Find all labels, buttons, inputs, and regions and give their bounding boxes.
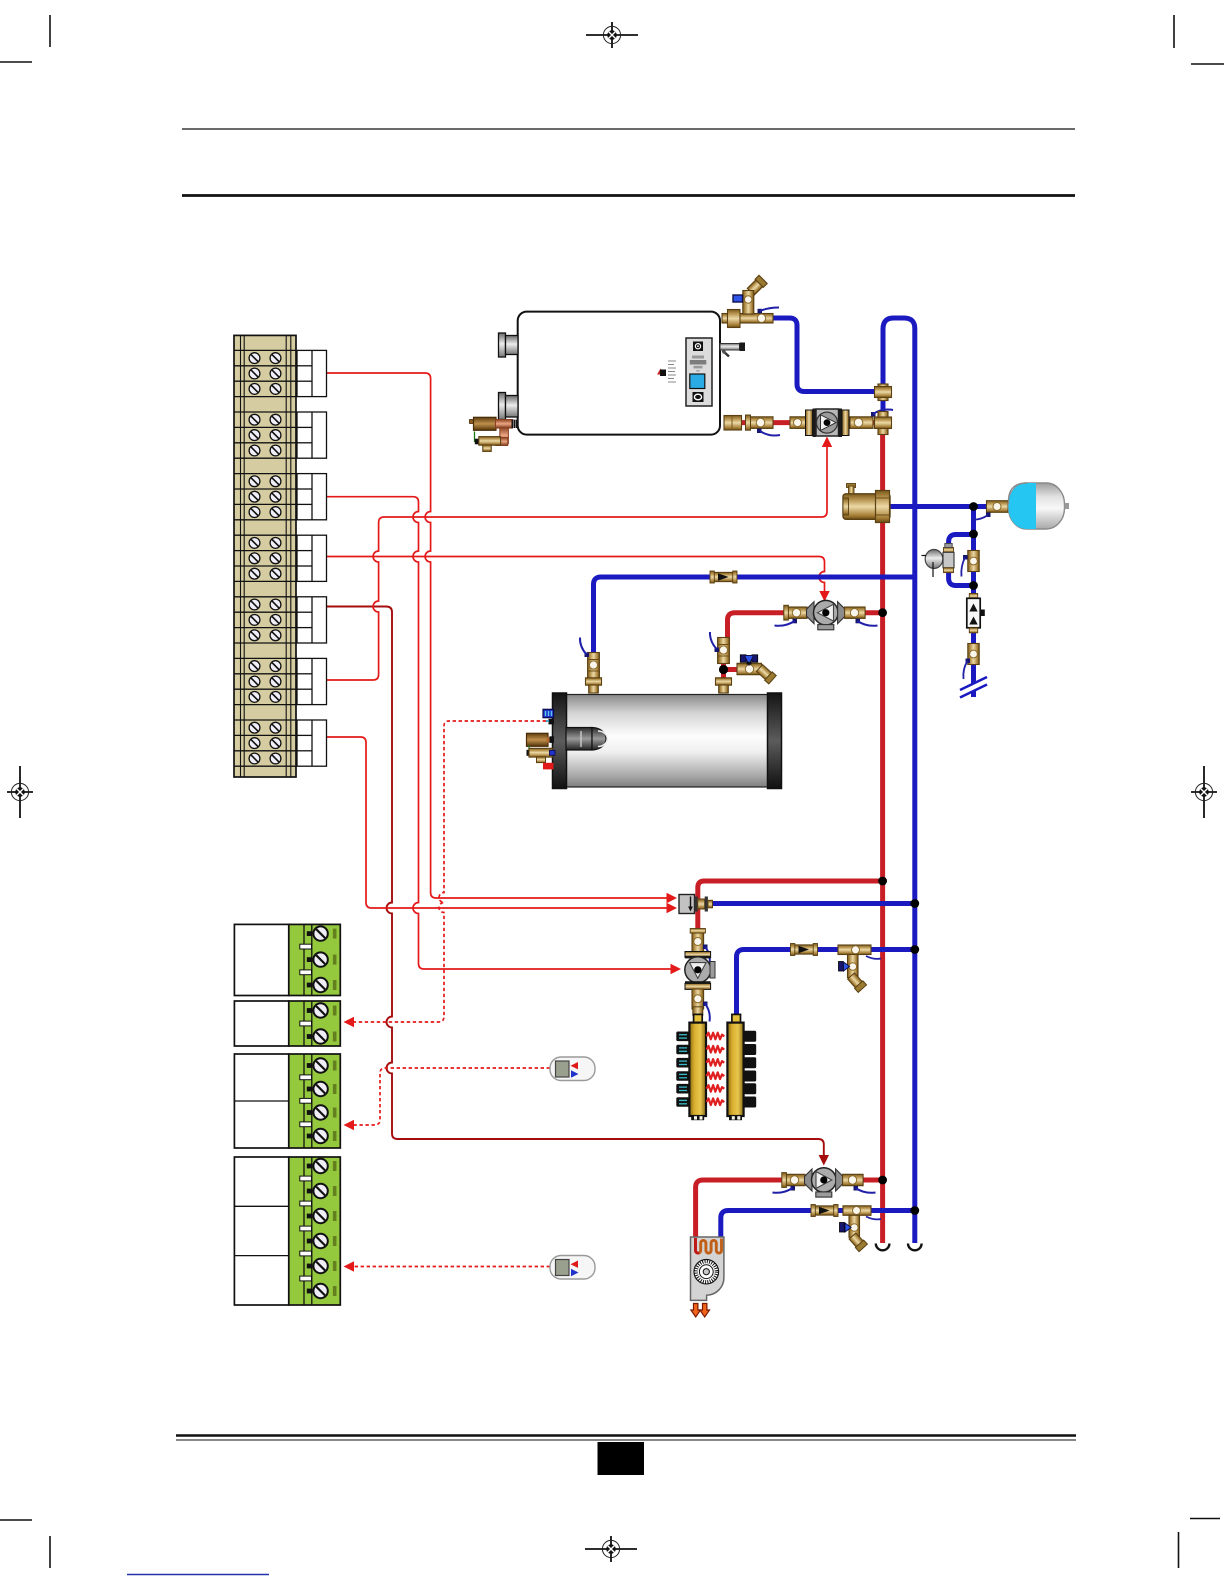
tank boiler drain faucet: [737, 655, 776, 684]
junction dot DHW pump discharge: [878, 608, 887, 617]
drain valve assembly on fan coil return: [840, 1206, 882, 1252]
relay box 2: [297, 412, 327, 458]
blue pipe fill left branch with PRV: [949, 535, 974, 586]
wire box4 to DHW pump: [327, 557, 825, 592]
junction dot fan coil return at return main: [910, 1206, 919, 1215]
relay box 5: [297, 597, 327, 643]
backflow preventer: [967, 594, 985, 633]
strip screws group7: [249, 722, 281, 733]
supply manifold (left): [689, 1014, 706, 1120]
wire box5 to fan coil pump: [327, 607, 824, 1156]
blue pipe fan coil return: [721, 1211, 915, 1240]
tee boiler return at main: [878, 384, 888, 401]
boiler: [499, 312, 746, 435]
arrow into green block3: [344, 1120, 355, 1130]
boiler control panel: [686, 338, 712, 406]
junction dot fill branch bottom: [969, 581, 978, 590]
arrow into mixing valve lower: [667, 903, 678, 913]
junction dot fan coil pump discharge: [878, 1176, 887, 1185]
supply manifold loop connectors: [676, 1032, 689, 1107]
strip screws group3: [249, 476, 281, 487]
tank aquastat fitting: [549, 719, 555, 725]
tank element (electric): [527, 733, 555, 746]
blue pipe to expansion tank: [889, 504, 1010, 509]
pump flange right: [839, 409, 843, 438]
registration mark left center: [7, 766, 33, 818]
dashed wire thermostat1 to control block 3: [354, 1068, 550, 1125]
red pipe supply main riser: [880, 424, 885, 1243]
relay box 3: [297, 474, 327, 520]
junction dot mixing valve outlet at return main: [910, 899, 919, 908]
relay box 4: [297, 535, 327, 581]
fan coil pump P3: [773, 1168, 876, 1197]
red pipe DHW pump suction from tank: [728, 613, 790, 645]
footer rule thin: [176, 1439, 1076, 1441]
registration mark right center: [1191, 766, 1217, 818]
fan coil blower wheel: [694, 1259, 719, 1284]
pump flange left: [806, 410, 813, 436]
control block 1 (green): [234, 924, 340, 995]
header rule thick: [182, 194, 1075, 197]
relay box 7: [297, 720, 327, 766]
ball valve on boiler outlet: [757, 314, 765, 322]
header rule thin: [182, 128, 1075, 130]
arrow into mixing valve upper: [667, 893, 678, 903]
return manifold (right): [727, 1014, 743, 1120]
tank hot connector (red): [543, 763, 554, 770]
strip screws group6: [249, 661, 281, 672]
relief valve body: [743, 291, 754, 315]
thermostat 1: [550, 1057, 595, 1081]
registration mark bottom center: [585, 1536, 637, 1562]
relief discharge elbow 45: [747, 275, 768, 296]
boiler gas stub: [720, 343, 745, 357]
check valve on tank cold feed: [710, 571, 737, 583]
crop mark bottom-left: [0, 1520, 50, 1568]
red pipe boiler supply to tee: [730, 420, 877, 425]
blue pipe fill lower drop: [971, 586, 976, 698]
wire box6 to boiler pump: [327, 447, 828, 680]
relay box 6: [297, 658, 327, 704]
boiler outlet piping with relief valve: [722, 275, 779, 327]
relay box 1: [297, 350, 327, 396]
arrow down into fan coil pump: [819, 1155, 829, 1166]
purge valve assembly on manifold return: [838, 945, 881, 992]
air separator: [843, 484, 890, 523]
tank hot outlet ball valve: [710, 632, 732, 693]
strip screws group4: [249, 538, 281, 549]
tank drain valve lower: [527, 746, 556, 763]
fan coil unit: [691, 1237, 724, 1317]
footer rule thick: [176, 1434, 1076, 1437]
junction dot fill branch top: [969, 530, 978, 539]
return main end hook: [908, 1244, 922, 1251]
tank element boss: [566, 728, 592, 751]
DHW tank: [553, 693, 782, 789]
supply main end hook: [876, 1244, 890, 1251]
blue pipe mixing valve outlet: [709, 901, 915, 906]
blue pipe between tees: [881, 390, 886, 421]
tee boiler supply at main: [878, 412, 888, 435]
fan coil heating coil: [696, 1238, 722, 1253]
DHW pump P2: [775, 600, 878, 629]
union at boiler: [724, 416, 742, 431]
pipe break symbol on fill line: [960, 677, 987, 698]
radiant pump P4 (vertical): [685, 952, 715, 990]
return manifold loop connectors: [744, 1031, 757, 1108]
fill ball valve (right branch): [961, 551, 979, 577]
expansion tank isolation valve: [971, 501, 1008, 520]
boiler vent stub lower: [499, 393, 519, 420]
wire box1 to mixing valve upper input: [327, 373, 668, 898]
thermostat 2: [550, 1256, 595, 1280]
blue pipe boiler return drop: [773, 318, 877, 392]
crop mark top-right: [1174, 15, 1224, 64]
control block 2 (green): [234, 1001, 340, 1046]
control block 3 (green): [234, 1054, 340, 1148]
arrow up into boiler pump: [822, 437, 832, 448]
registration mark top center: [586, 22, 638, 48]
check valve on fan coil return: [811, 1205, 838, 1217]
boiler condensate / gas trap assembly: [470, 417, 518, 451]
red pipe fan coil supply: [696, 1180, 786, 1243]
radiant loop isolation valve upper: [690, 929, 710, 965]
tank cold inlet ball valve: [580, 638, 602, 694]
junction dot manifold return at return main: [910, 945, 919, 954]
footer blue rule: [127, 1574, 269, 1576]
terminal strip (tan): [234, 335, 296, 777]
blue pipe fill drop: [971, 507, 976, 535]
union before pump: [790, 417, 806, 429]
strip screws group1: [249, 353, 281, 364]
wire box3 to radiant pump: [327, 497, 672, 969]
wire box7 to mixing valve lower input: [327, 737, 668, 908]
junction dot tank drain branch: [719, 665, 728, 674]
dashed wire tank aquastat to control block 2: [354, 721, 546, 1022]
boiler pump P1 assembly: [724, 409, 893, 438]
boiler vent stub upper: [499, 333, 519, 357]
red pipe tank hot riser: [724, 640, 742, 693]
blue pipe return bridge and main: [883, 318, 915, 1243]
strip screws group2: [249, 414, 281, 425]
blue pipe fill right branch: [971, 534, 976, 586]
isolation valve left: [748, 417, 773, 429]
fill valve PRV (pressure reducing): [922, 544, 955, 578]
expansion tank: [1009, 483, 1070, 529]
red pipe DHW pump discharge: [861, 610, 883, 615]
junction dot expansion tank line: [969, 502, 978, 511]
fill lower ball valve: [963, 644, 979, 680]
red pipe fan coil pump discharge: [861, 1178, 883, 1183]
junction dot supply branch to mixing valve: [878, 877, 887, 886]
arrow into radiant pump: [671, 964, 682, 974]
check valve on manifold return: [791, 944, 818, 956]
arrow down into DHW pump: [819, 591, 829, 602]
radiant loop isolation valve lower: [692, 989, 710, 1022]
control block 4 (green): [234, 1157, 340, 1305]
page number block: [598, 1442, 645, 1475]
isolation valve right: [850, 417, 873, 429]
arrow into green block2: [344, 1017, 355, 1027]
blue pipe tank cold feed: [594, 577, 915, 656]
crop mark bottom-right: [1179, 1519, 1221, 1569]
tank cold connector (blue): [543, 709, 554, 717]
boiler logo: [657, 361, 676, 382]
red pipe branch to mixing valve and manifold: [698, 881, 883, 1018]
relief valve blue T-handle: [733, 295, 743, 302]
strip screws group5: [249, 599, 281, 610]
radiant loops (zigzags): [707, 1033, 725, 1105]
pump body: [816, 409, 839, 436]
arrow into green block4: [344, 1261, 355, 1271]
fan coil discharge arrows: [691, 1304, 710, 1318]
dashed wire thermostat2 to control block 4: [354, 1266, 550, 1268]
crop mark top-left: [0, 15, 50, 62]
blue pipe manifold return: [737, 950, 915, 1017]
mixing valve: [679, 895, 713, 914]
